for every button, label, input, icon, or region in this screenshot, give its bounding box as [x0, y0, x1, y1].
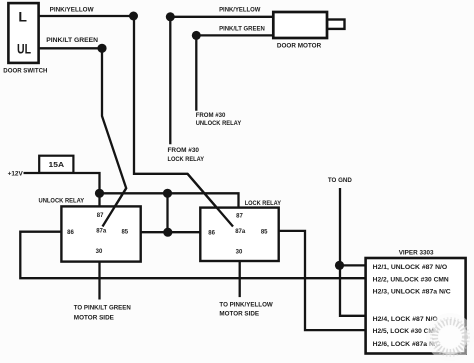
svg-text:85: 85 — [121, 230, 128, 236]
svg-text:PINK/LT GREEN: PINK/LT GREEN — [219, 25, 265, 32]
svg-text:PINK/LT GREEN: PINK/LT GREEN — [46, 37, 98, 44]
svg-text:87a: 87a — [235, 229, 246, 235]
svg-text:DOOR SWITCH: DOOR SWITCH — [3, 68, 47, 75]
svg-text:PINK/YELLOW: PINK/YELLOW — [50, 6, 95, 13]
svg-text:MOTOR SIDE: MOTOR SIDE — [74, 315, 115, 322]
svg-text:UNLOCK RELAY: UNLOCK RELAY — [196, 120, 242, 127]
svg-text:VIPER 3303: VIPER 3303 — [399, 249, 434, 256]
svg-text:TO PINK/LT GREEN: TO PINK/LT GREEN — [74, 305, 131, 312]
svg-text:H2/4, LOCK #87 N/O: H2/4, LOCK #87 N/O — [373, 316, 438, 323]
svg-text:87: 87 — [97, 213, 104, 219]
svg-text:30: 30 — [236, 250, 243, 256]
svg-text:FROM #30: FROM #30 — [196, 112, 226, 119]
svg-text:H2/2, UNLOCK #30 CMN: H2/2, UNLOCK #30 CMN — [373, 277, 449, 284]
svg-text:87a: 87a — [96, 229, 107, 235]
svg-text:86: 86 — [67, 230, 74, 236]
svg-text:TO GND: TO GND — [328, 177, 352, 184]
svg-text:LOCK RELAY: LOCK RELAY — [245, 200, 282, 207]
svg-text:15A: 15A — [49, 160, 65, 169]
svg-text:H2/1, UNLOCK #87 N/O: H2/1, UNLOCK #87 N/O — [373, 264, 448, 271]
svg-text:H2/3, UNLOCK #87a N/C: H2/3, UNLOCK #87a N/C — [373, 289, 451, 296]
svg-text:PINK/YELLOW: PINK/YELLOW — [219, 6, 261, 13]
svg-text:+12V: +12V — [8, 170, 24, 177]
svg-text:LOCK RELAY: LOCK RELAY — [168, 156, 205, 163]
svg-text:87: 87 — [236, 213, 243, 219]
svg-text:UNLOCK RELAY: UNLOCK RELAY — [39, 198, 85, 205]
svg-text:L: L — [18, 9, 27, 25]
svg-text:85: 85 — [261, 230, 268, 236]
svg-text:TO PINK/YELLOW: TO PINK/YELLOW — [219, 302, 273, 309]
svg-text:FROM #30: FROM #30 — [168, 147, 200, 154]
svg-text:MOTOR SIDE: MOTOR SIDE — [219, 310, 259, 317]
svg-text:DOOR MOTOR: DOOR MOTOR — [277, 42, 321, 49]
svg-text:30: 30 — [96, 249, 103, 255]
svg-text:UL: UL — [17, 41, 31, 57]
svg-text:86: 86 — [208, 230, 215, 236]
